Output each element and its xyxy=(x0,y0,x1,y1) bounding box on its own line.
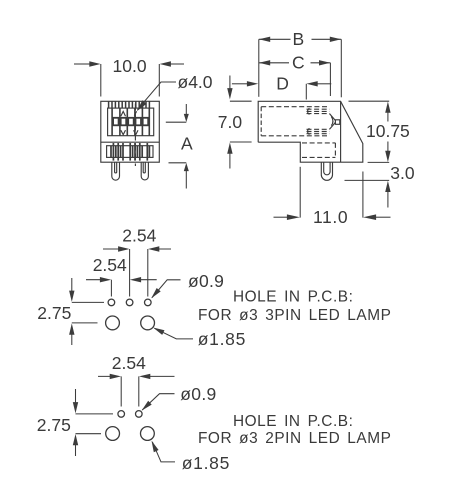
mid 2.54a arrowheads xyxy=(118,246,129,251)
bottom pattern small hole 2 xyxy=(136,411,143,418)
svg-text:B: B xyxy=(293,29,305,49)
dim 3.0 arrowhead xyxy=(385,181,390,192)
bottom pattern 2.75 top stub xyxy=(76,413,114,415)
front view outer body rect xyxy=(101,101,160,162)
svg-text:ø4.0: ø4.0 xyxy=(178,72,213,92)
mid 2.54b arrowheads xyxy=(100,277,111,282)
bottom pattern 2.75 bottom arrow tail xyxy=(75,444,77,456)
dim 3.0 stub xyxy=(345,179,390,181)
side view body outline xyxy=(258,101,363,162)
bottom pattern 2.75 bottom stub xyxy=(76,433,102,435)
svg-text:3.0: 3.0 xyxy=(390,163,415,183)
bottom pattern big hole 1 xyxy=(106,427,120,441)
dim 11.0 left arrow tail xyxy=(274,216,289,218)
dim A top stub xyxy=(166,121,187,123)
dim D left arrow tail xyxy=(232,83,248,85)
front view chevron marks xyxy=(121,111,126,116)
mid ø0.9 leader arrowhead xyxy=(151,288,161,298)
svg-text:FOR ø3 2PIN LED LAMP: FOR ø3 2PIN LED LAMP xyxy=(198,430,391,447)
dim 10.75 top stub xyxy=(349,100,390,102)
dim 7.0 top stub xyxy=(230,100,252,102)
svg-text:A: A xyxy=(181,134,193,154)
side view lens tip rect xyxy=(335,120,339,125)
mid 2.75 arrowheads xyxy=(69,291,74,302)
svg-text:2.54: 2.54 xyxy=(122,226,156,246)
bottom pattern 2.75 top arrow tail xyxy=(75,389,77,403)
bottom ø0.9 leader arrowhead xyxy=(142,401,152,411)
mid pattern 2.54a ext right xyxy=(147,249,149,297)
svg-text:10.0: 10.0 xyxy=(113,56,147,76)
svg-text:HOLE IN P.C.B:: HOLE IN P.C.B: xyxy=(233,289,353,306)
dim 7.0 bottom stub xyxy=(230,141,252,143)
side view front face vertical xyxy=(340,101,342,162)
dim 3.0 arrow tail xyxy=(387,192,389,208)
svg-text:10.75: 10.75 xyxy=(366,121,410,141)
dim 10.75 line segments xyxy=(387,112,389,152)
mid pattern 2.75 top stub xyxy=(72,301,104,303)
mid pattern small hole 2 xyxy=(126,299,133,306)
dim B arrowheads xyxy=(259,37,270,42)
bottom pattern leader ø1.85 xyxy=(152,442,175,462)
mid pattern big hole 1 xyxy=(106,316,120,330)
side view upper lead hook xyxy=(308,108,310,114)
dim 11.0 right extension xyxy=(362,172,364,218)
leader ø4.0 xyxy=(137,82,176,110)
side view upper lead dashes xyxy=(307,109,330,113)
svg-text:ø1.85: ø1.85 xyxy=(198,329,246,349)
front view 5 contact squares xyxy=(113,118,148,126)
dim 10.75 arrowheads xyxy=(385,102,390,113)
dim D right arrow tail xyxy=(317,83,331,85)
svg-text:2.54: 2.54 xyxy=(112,353,146,373)
bottom pattern 2.54 ext right xyxy=(138,376,140,406)
dim D arrowheads xyxy=(247,81,258,86)
mid pattern 2.75 bottom arrow tail xyxy=(71,333,73,345)
dim A bottom arrow tail xyxy=(185,171,187,189)
mid pattern dim 2.54a line xyxy=(103,248,171,250)
svg-text:2.54: 2.54 xyxy=(93,255,127,275)
side view lower lead dashes xyxy=(307,129,330,133)
front view mid horizontal line xyxy=(101,141,160,143)
dim 10.0 arrowheads xyxy=(89,61,100,66)
mid pattern small hole 3 xyxy=(145,299,152,306)
dim 10.0 extension lines xyxy=(100,64,102,97)
bottom ø1.85 leader arrowhead xyxy=(152,441,159,453)
dim 7.0 top arrow tail xyxy=(229,76,231,90)
svg-text:ø1.85: ø1.85 xyxy=(182,453,230,473)
mid pattern 2.75 top arrow tail xyxy=(71,278,73,292)
dim A top arrow tail xyxy=(185,104,187,115)
svg-text:7.0: 7.0 xyxy=(218,112,243,132)
dim C line xyxy=(259,62,331,64)
mid pattern 2.54a ext middle xyxy=(129,249,131,297)
side view hidden hole top dashed xyxy=(261,106,329,108)
mid pattern leader ø0.9 xyxy=(152,280,181,298)
mid pattern 2.75 bottom stub xyxy=(72,322,98,324)
front view left pin xyxy=(112,162,120,180)
front view center dashed line xyxy=(134,104,136,167)
front view inner vertical lines xyxy=(112,108,149,136)
front view inner upper rect xyxy=(108,108,154,136)
front view top fin ticks xyxy=(109,101,150,108)
bottom pattern big hole 2 xyxy=(141,427,155,441)
svg-text:C: C xyxy=(292,52,305,72)
svg-text:ø0.9: ø0.9 xyxy=(188,271,224,291)
bottom 2.54 arrowheads xyxy=(110,374,121,379)
mid pattern big hole 2 xyxy=(141,316,155,330)
side view pin xyxy=(321,162,332,180)
dim B right extension xyxy=(340,39,342,97)
svg-text:2.75: 2.75 xyxy=(37,415,71,435)
dim B line xyxy=(259,38,341,40)
mid pattern dim 2.54b line xyxy=(86,279,157,281)
mid ø1.85 leader arrowhead xyxy=(153,328,165,335)
dim 7.0 arrowheads xyxy=(227,88,232,99)
svg-text:FOR ø3 3PIN LED LAMP: FOR ø3 3PIN LED LAMP xyxy=(198,307,391,324)
side view hidden hole left dashed xyxy=(260,107,262,136)
dim D right extension xyxy=(305,84,307,100)
svg-text:2.75: 2.75 xyxy=(37,303,71,323)
dim 11.0 left extension xyxy=(299,167,301,218)
side view lens dome arc xyxy=(331,116,333,125)
dim B-C-D shared left extension xyxy=(258,39,260,97)
svg-text:HOLE IN P.C.B:: HOLE IN P.C.B: xyxy=(233,413,353,430)
bottom pattern leader ø0.9 xyxy=(142,394,174,410)
front view lower band fin ticks xyxy=(111,143,149,161)
arrowheads xyxy=(69,37,391,453)
mid pattern small hole 1 xyxy=(108,299,115,306)
leader ø4.0 arrowhead xyxy=(137,100,147,111)
dim 10.75 bottom stub xyxy=(368,161,390,163)
dim A bottom stub xyxy=(169,162,187,164)
svg-text:11.0: 11.0 xyxy=(313,207,348,227)
bottom pattern small hole 1 xyxy=(118,411,125,418)
bottom 2.75 arrowheads xyxy=(73,402,78,413)
side view hidden hole bottom dashed xyxy=(261,135,329,137)
dim 7.0 bottom arrow tail xyxy=(229,154,231,169)
svg-text:ø0.9: ø0.9 xyxy=(180,384,216,404)
dim 11.0 arrowheads xyxy=(287,214,300,220)
dim 11.0 right arrow tail xyxy=(375,216,391,218)
bottom pattern 2.54 ext left xyxy=(120,376,122,406)
side view lens tip converging lines xyxy=(330,114,336,130)
dim A arrowheads xyxy=(184,114,189,122)
dim 10.0 arrow left xyxy=(74,63,90,65)
dim C right extension xyxy=(329,63,331,96)
dim C arrowheads xyxy=(259,60,270,65)
mid pattern leader ø1.85 xyxy=(155,328,194,339)
side view lower lead hook xyxy=(308,128,310,134)
front view right pin xyxy=(141,162,148,180)
front view inner lower rect xyxy=(107,146,153,158)
bottom pattern dim 2.54 line xyxy=(98,375,175,377)
side view base hidden dashed lines xyxy=(302,143,335,158)
svg-text:D: D xyxy=(276,74,289,94)
mid pattern 2.54b ext left xyxy=(110,280,112,297)
dim 10.0 arrow right xyxy=(170,63,184,65)
